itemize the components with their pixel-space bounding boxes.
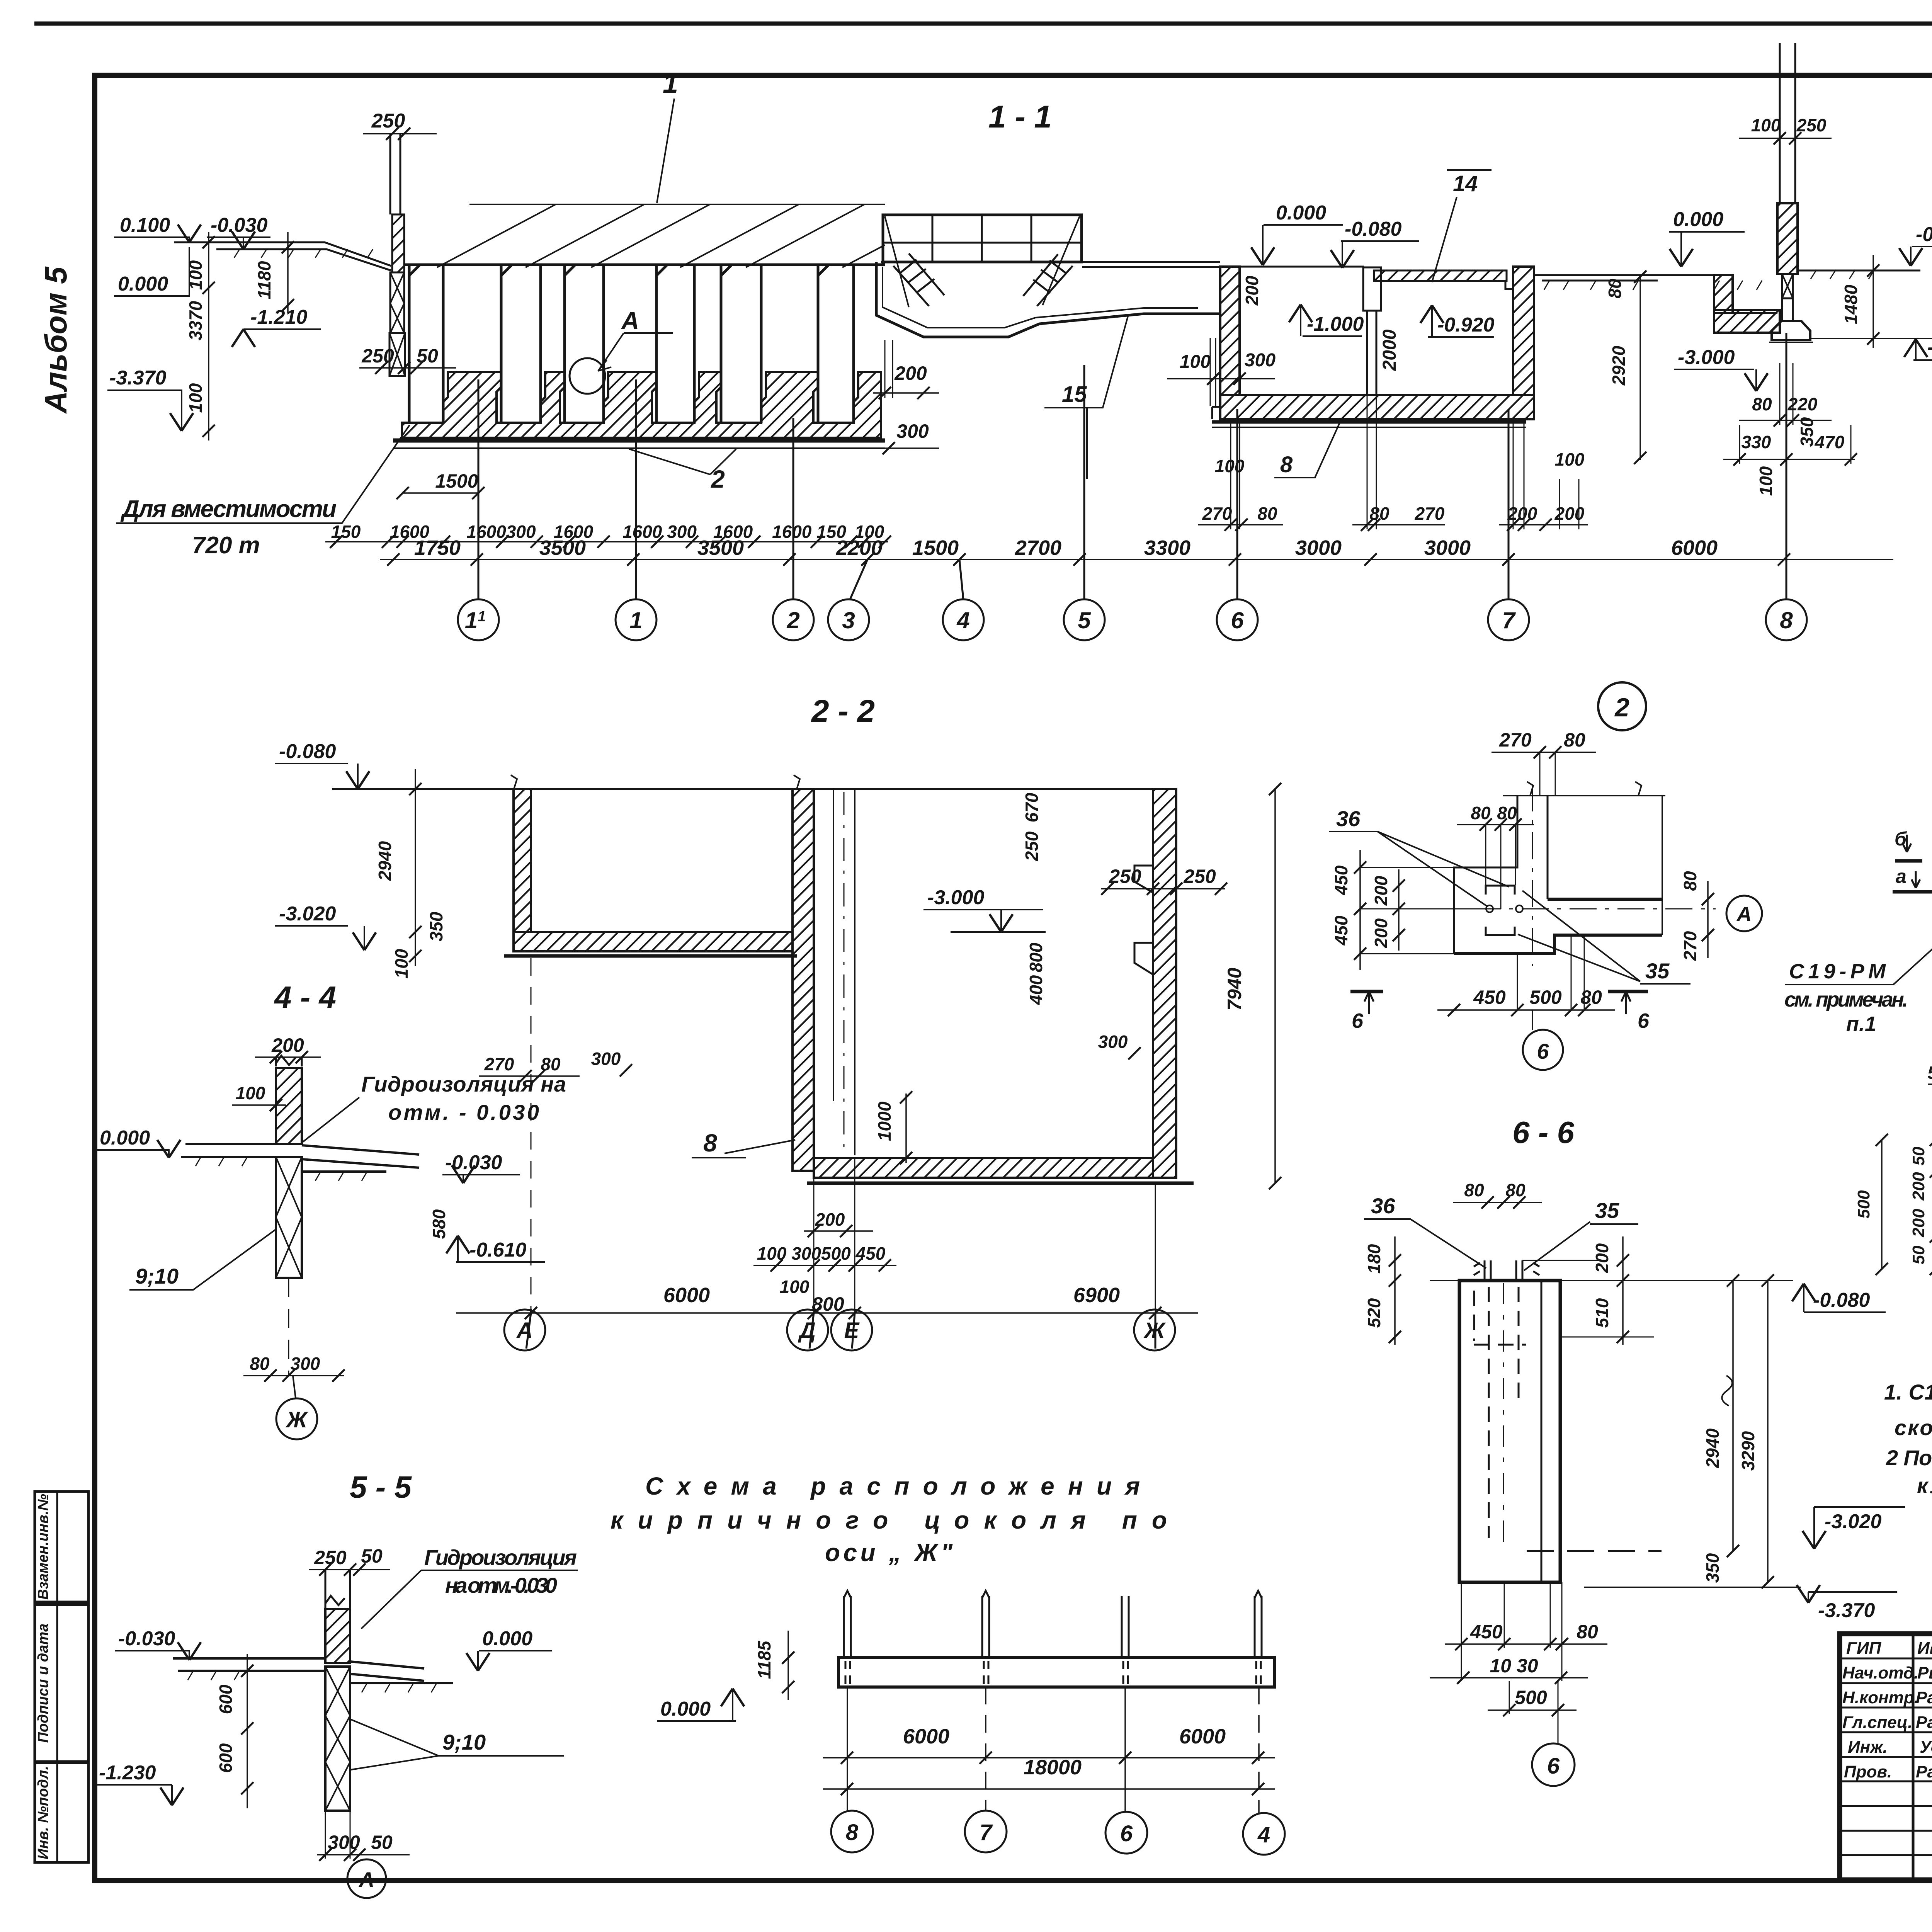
section 4-4 [97, 980, 566, 1439]
svg-text:580: 580 [429, 1209, 449, 1239]
svg-text:80: 80 [1605, 279, 1625, 299]
svg-text:6: 6 [1352, 1009, 1364, 1032]
axis circles row [458, 333, 1807, 640]
svg-text:6000: 6000 [903, 1725, 949, 1748]
left vertical dim chain [208, 232, 209, 440]
svg-text:-0.610: -0.610 [469, 1239, 527, 1261]
anchor pocket dashed [1489, 1287, 1519, 1538]
svg-text:6000: 6000 [1671, 536, 1718, 560]
circle 6 [1532, 1743, 1575, 1786]
svg-text:2: 2 [1614, 693, 1629, 722]
svg-text:-3.000: -3.000 [927, 886, 985, 909]
svg-text:-0.080: -0.080 [1345, 218, 1402, 240]
top channel pair [1474, 1260, 1539, 1281]
bunker tank walls [409, 265, 854, 423]
circle 2 label [1598, 682, 1646, 730]
svg-text:0.000: 0.000 [660, 1698, 711, 1720]
center lines [1378, 784, 1716, 966]
svg-text:200: 200 [1371, 918, 1391, 948]
svg-text:2200: 2200 [836, 536, 883, 560]
svg-text:2940: 2940 [1702, 1428, 1723, 1468]
main wall rect [1459, 1281, 1560, 1582]
bunker top slab line [404, 264, 885, 266]
svg-text:80: 80 [1564, 729, 1585, 751]
left attribute box Взамен.инв.№ [35, 1492, 88, 1602]
svg-text:200: 200 [1242, 276, 1262, 306]
svg-text:1 - 1: 1 - 1 [988, 99, 1052, 134]
svg-text:1: 1 [663, 68, 678, 99]
svg-text:80: 80 [1497, 803, 1517, 823]
svg-text:600: 600 [216, 1743, 236, 1773]
svg-text:8: 8 [703, 1129, 717, 1157]
svg-text:35: 35 [1595, 1198, 1619, 1223]
svg-text:220: 220 [1787, 394, 1818, 414]
svg-text:200: 200 [1371, 876, 1391, 906]
svg-text:270: 270 [1680, 931, 1700, 961]
svg-text:б: б [1895, 828, 1907, 850]
svg-text:1600300: 1600300 [466, 522, 536, 542]
central wall hatched [793, 789, 814, 1171]
svg-text:-1.560: -1.560 [1927, 336, 1932, 359]
svg-text:100: 100 [185, 260, 206, 290]
foundation strip hatched [402, 372, 881, 438]
svg-text:4 - 4: 4 - 4 [274, 980, 336, 1014]
dim 1180 / level -1.210 [287, 232, 289, 313]
left attribute box Инв.№ подл. [35, 1763, 88, 1862]
svg-text:670: 670 [1022, 793, 1042, 822]
svg-text:2920: 2920 [1609, 345, 1629, 386]
hopper chutes slanted [893, 253, 944, 306]
node A circle on tank [570, 358, 605, 394]
dims 50 350 350 50 [1927, 1063, 1932, 1083]
svg-text:6 - 6: 6 - 6 [1512, 1115, 1575, 1150]
svg-text:100: 100 [1180, 352, 1211, 372]
signature table rows [1840, 1658, 1932, 1855]
svg-text:270: 270 [1415, 503, 1445, 524]
svg-text:-0.080: -0.080 [279, 740, 336, 763]
svg-text:0.000: 0.000 [482, 1628, 532, 1650]
svg-text:3500: 3500 [539, 536, 586, 560]
svg-text:Для вместимости: Для вместимости [120, 496, 337, 522]
foundation base double line [393, 439, 885, 443]
section 1-1 [107, 43, 1932, 640]
svg-text:270: 270 [484, 1054, 514, 1074]
svg-text:1500: 1500 [912, 536, 959, 560]
trench before axis 8 [1714, 275, 1733, 313]
svg-text:6900: 6900 [1073, 1284, 1120, 1307]
svg-text:720 т: 720 т [192, 532, 260, 559]
svg-text:-3.000: -3.000 [1678, 346, 1735, 369]
vertical dims 600 600 [247, 1654, 248, 1808]
right wall hatched [1153, 789, 1176, 1178]
svg-text:15: 15 [1062, 382, 1087, 407]
svg-text:9;10: 9;10 [442, 1730, 486, 1754]
wall outline [1454, 796, 1517, 954]
svg-text:200: 200 [1592, 1243, 1612, 1273]
axis to circle Ж [288, 1278, 289, 1376]
svg-text:ГИП: ГИП [1846, 1639, 1882, 1658]
svg-text:300: 300 [591, 1049, 621, 1069]
svg-text:300: 300 [1098, 1032, 1128, 1052]
svg-text:Нач.отд.: Нач.отд. [1842, 1663, 1918, 1682]
svg-text:скобе- накладке по ГОСТ 140: скобе- накладке по ГОСТ 14098-85. [1895, 1415, 1932, 1440]
svg-text:9;10: 9;10 [135, 1264, 179, 1288]
wall column axis 11 [390, 134, 400, 214]
svg-text:оси „ Ж": оси „ Ж" [825, 1539, 953, 1566]
notes [1884, 1380, 1932, 1498]
svg-text:250: 250 [1183, 866, 1216, 887]
plinth beam [838, 1658, 1275, 1687]
svg-text:Альбом 5: Альбом 5 [39, 266, 73, 414]
wall pier [325, 1570, 350, 1609]
axis 8 column [1780, 43, 1795, 203]
svg-text:100: 100 [185, 383, 206, 413]
svg-text:520: 520 [1364, 1298, 1384, 1328]
svg-text:2: 2 [711, 465, 725, 493]
svg-text:100: 100 [391, 949, 412, 978]
svg-text:см. примечан.: см. примечан. [1784, 988, 1908, 1011]
svg-text:330: 330 [1742, 432, 1771, 452]
svg-text:Ж: Ж [285, 1407, 308, 1432]
svg-text:500: 500 [1854, 1190, 1873, 1219]
svg-text:500: 500 [1515, 1687, 1547, 1708]
svg-text:А: А [621, 307, 639, 335]
svg-text:1000: 1000 [874, 1101, 895, 1141]
svg-text:350: 350 [1797, 417, 1817, 447]
svg-text:300: 300 [896, 420, 929, 442]
schema group [611, 1472, 1285, 1855]
svg-text:a: a [1896, 866, 1906, 887]
svg-text:200: 200 [1909, 1172, 1928, 1201]
ground line left [174, 242, 391, 270]
leader lines to label 1 [437, 204, 885, 267]
svg-text:470: 470 [1815, 432, 1845, 452]
svg-text:270: 270 [1202, 503, 1232, 524]
axis circles A Д Е Ж [504, 1309, 1175, 1350]
svg-text:450: 450 [1470, 1621, 1503, 1643]
svg-text:35: 35 [1645, 959, 1670, 983]
svg-text:-3.020: -3.020 [1825, 1510, 1882, 1533]
section marks б [1350, 990, 1383, 993]
svg-text:Н.контр.: Н.контр. [1842, 1688, 1919, 1707]
deep pit bottom slab [814, 1158, 1153, 1178]
top edge line [332, 788, 1176, 790]
svg-text:Е: Е [844, 1318, 860, 1343]
svg-text:4: 4 [1257, 1822, 1270, 1847]
svg-text:5: 5 [1078, 607, 1091, 633]
svg-text:500: 500 [1529, 986, 1562, 1008]
svg-text:Инж.: Инж. [1848, 1738, 1888, 1757]
svg-text:отм. - 0.030: отм. - 0.030 [388, 1100, 539, 1124]
svg-text:0.100: 0.100 [120, 214, 170, 236]
svg-text:8: 8 [1280, 452, 1293, 477]
svg-text:0.000: 0.000 [1276, 202, 1326, 224]
slabs / ground [173, 1658, 325, 1671]
svg-text:-0.030: -0.030 [118, 1628, 175, 1650]
stamp outer box [1840, 1634, 1932, 1880]
svg-text:-0.920: -0.920 [1437, 314, 1495, 336]
svg-text:1180: 1180 [254, 261, 274, 299]
svg-text:8: 8 [1780, 607, 1793, 633]
svg-text:1185: 1185 [754, 1640, 774, 1679]
pit walls [1220, 266, 1364, 268]
circle б bottom [1532, 1010, 1533, 1030]
svg-text:Рашевский: Рашевский [1916, 1762, 1932, 1781]
svg-text:7: 7 [1502, 607, 1516, 633]
circle A right [1726, 896, 1762, 931]
svg-text:Гидроизоляция на: Гидроизоляция на [361, 1072, 566, 1096]
svg-text:6: 6 [1638, 1009, 1650, 1032]
svg-text:0.000: 0.000 [118, 273, 168, 295]
signature table columns [1913, 1634, 1932, 1880]
axis drop lines [847, 1687, 1125, 1812]
hopper platform grid [883, 215, 1082, 262]
svg-text:510: 510 [1592, 1298, 1612, 1328]
svg-text:Рыбкина: Рыбкина [1917, 1663, 1932, 1682]
section 6-6 [1364, 1115, 1905, 1786]
svg-text:36: 36 [1371, 1194, 1395, 1218]
svg-text:7940: 7940 [1224, 968, 1245, 1010]
svg-text:3000: 3000 [1424, 536, 1471, 560]
svg-text:80: 80 [1464, 1180, 1484, 1200]
svg-text:2 После сварки выпусков ст: 2 После сварки выпусков стык омонолитить… [1886, 1446, 1932, 1470]
axis circles 8 7 6 4 [831, 1811, 1285, 1855]
svg-text:800: 800 [1026, 942, 1046, 972]
tub pit [876, 262, 1220, 337]
svg-text:600: 600 [216, 1684, 236, 1714]
svg-text:14: 14 [1453, 171, 1478, 196]
hopper floor line [881, 262, 1220, 267]
svg-text:Гл.спец.: Гл.спец. [1842, 1713, 1912, 1732]
svg-text:100: 100 [1555, 449, 1585, 469]
pit bottom dims [1202, 449, 1585, 524]
svg-text:300: 300 [1245, 350, 1276, 371]
svg-text:6: 6 [1537, 1039, 1549, 1063]
svg-text:150: 150 [331, 522, 361, 542]
svg-text:2 - 2: 2 - 2 [811, 694, 875, 729]
svg-text:Гидроизоляция: Гидроизоляция [424, 1545, 577, 1570]
axis circle A [347, 1859, 386, 1898]
svg-text:200: 200 [1554, 503, 1585, 524]
svg-text:18000: 18000 [1024, 1756, 1082, 1779]
svg-text:250: 250 [1022, 831, 1042, 861]
svg-text:100 300500 450: 100 300500 450 [757, 1243, 886, 1264]
small dims row A [331, 522, 884, 542]
svg-text:1: 1 [629, 607, 642, 633]
svg-text:-0.030: -0.030 [211, 214, 268, 236]
svg-text:2940: 2940 [375, 841, 395, 881]
long dashed level line [1527, 1550, 1662, 1552]
svg-text:6: 6 [1547, 1753, 1560, 1779]
svg-text:4: 4 [956, 607, 969, 633]
svg-text:Рашевский: Рашевский [1916, 1688, 1932, 1707]
svg-text:8: 8 [846, 1820, 859, 1845]
svg-text:350: 350 [1702, 1553, 1723, 1583]
svg-text:80: 80 [1752, 394, 1772, 414]
slabs [181, 1144, 276, 1157]
svg-text:250: 250 [361, 345, 394, 367]
title block (stamp) [1840, 1491, 1932, 1932]
svg-text:-0.080: -0.080 [1813, 1289, 1870, 1311]
consoles on right wall [1134, 866, 1153, 893]
svg-text:Пров.: Пров. [1844, 1762, 1892, 1781]
node A detail group [1784, 663, 1932, 1338]
svg-text:100: 100 [236, 1083, 265, 1103]
svg-text:на отм.-0.030: на отм.-0.030 [445, 1573, 557, 1597]
ground line right of pit [1534, 275, 1714, 281]
sheet top edge line [34, 22, 1932, 26]
svg-text:36: 36 [1336, 806, 1361, 831]
section 2-2 [275, 694, 1281, 1350]
svg-text:100: 100 [1756, 466, 1776, 496]
left wall hatched [514, 789, 531, 932]
svg-text:200: 200 [1507, 503, 1537, 524]
svg-text:0.000: 0.000 [100, 1127, 150, 1149]
svg-text:100: 100 [780, 1277, 810, 1297]
svg-text:80: 80 [1257, 503, 1277, 524]
left attribute box Подписи и дата [35, 1605, 88, 1762]
svg-text:3500: 3500 [697, 536, 744, 560]
svg-text:1500: 1500 [435, 470, 478, 492]
svg-text:А: А [516, 1318, 533, 1343]
svg-text:10 30: 10 30 [1490, 1655, 1538, 1677]
svg-text:Инв. №подл.: Инв. №подл. [35, 1766, 51, 1859]
svg-text:-3.020: -3.020 [279, 903, 336, 925]
svg-text:3: 3 [842, 607, 855, 633]
svg-text:-1.000: -1.000 [1307, 313, 1364, 335]
channel anchors [1486, 886, 1515, 935]
svg-text:6: 6 [1231, 607, 1244, 633]
posts [844, 1591, 1262, 1658]
element lines in pit [833, 789, 855, 1155]
svg-text:100: 100 [1751, 115, 1781, 135]
svg-text:80: 80 [250, 1354, 270, 1374]
svg-text:50: 50 [1927, 1063, 1932, 1083]
section 5-5 [96, 1470, 578, 1898]
svg-text:1750: 1750 [414, 536, 461, 560]
left plan side dims [1854, 1141, 1932, 1266]
svg-text:1600 150: 1600 150 [772, 522, 846, 542]
svg-text:Взамен.инв.№: Взамен.инв.№ [35, 1494, 51, 1600]
top edge with breaks [1503, 782, 1665, 796]
svg-text:Подписи и дата: Подписи и дата [35, 1624, 51, 1743]
svg-text:450: 450 [1331, 915, 1351, 946]
svg-text:7: 7 [980, 1820, 993, 1845]
svg-text:3290: 3290 [1738, 1431, 1758, 1471]
svg-text:180: 180 [1364, 1244, 1384, 1274]
svg-text:200: 200 [1909, 1209, 1928, 1238]
svg-text:350: 350 [426, 912, 446, 941]
svg-text:1. С19- РМ- сварка дуговая: 1. С19- РМ- сварка дуговая ручная многос… [1884, 1380, 1932, 1404]
svg-text:-0.080: -0.080 [1916, 223, 1932, 246]
svg-text:А: А [358, 1867, 374, 1892]
ground right of column [1798, 270, 1920, 272]
svg-text:Рашевский: Рашевский [1916, 1713, 1932, 1732]
svg-text:250: 250 [1109, 866, 1141, 887]
svg-text:-3.370: -3.370 [109, 367, 167, 389]
svg-text:1480: 1480 [1841, 284, 1861, 324]
main dim row B [414, 536, 1718, 560]
svg-text:3300: 3300 [1144, 536, 1190, 560]
svg-text:270: 270 [1499, 729, 1532, 751]
svg-text:Иванова: Иванова [1917, 1639, 1932, 1658]
svg-text:3370: 3370 [185, 301, 206, 340]
svg-text:50: 50 [1909, 1146, 1928, 1165]
svg-text:2: 2 [786, 607, 799, 633]
upper pit floor slab [514, 932, 793, 951]
svg-text:2700: 2700 [1015, 536, 1061, 560]
svg-text:200: 200 [271, 1034, 304, 1056]
svg-text:80: 80 [1680, 871, 1700, 891]
svg-text:50: 50 [371, 1832, 393, 1853]
svg-text:-1.230: -1.230 [99, 1762, 156, 1784]
node 2 detail [1329, 682, 1762, 1070]
svg-text:А: А [1736, 903, 1752, 926]
svg-text:50: 50 [1909, 1245, 1928, 1264]
svg-text:-3.370: -3.370 [1818, 1599, 1875, 1622]
svg-text:2000: 2000 [1379, 329, 1400, 371]
svg-text:-1.210: -1.210 [250, 306, 308, 328]
svg-text:Д: Д [798, 1318, 816, 1343]
svg-text:200: 200 [894, 362, 927, 384]
svg-text:400: 400 [1026, 975, 1046, 1005]
svg-text:6: 6 [1120, 1821, 1133, 1846]
svg-text:3000: 3000 [1295, 536, 1342, 560]
wall pier [276, 1056, 302, 1066]
svg-text:250: 250 [371, 110, 405, 132]
signature labels [1842, 1639, 1932, 1781]
svg-text:6000: 6000 [663, 1284, 710, 1307]
svg-text:6000: 6000 [1179, 1725, 1226, 1748]
svg-text:450: 450 [1473, 986, 1506, 1008]
svg-text:80: 80 [1471, 803, 1491, 823]
svg-text:Удалова: Удалова [1920, 1738, 1932, 1757]
svg-text:80: 80 [1577, 1621, 1598, 1643]
svg-text:0.000: 0.000 [1673, 208, 1723, 231]
svg-text:Ж: Ж [1143, 1318, 1166, 1343]
svg-text:450: 450 [1331, 865, 1351, 895]
svg-text:5 - 5: 5 - 5 [350, 1470, 412, 1504]
svg-text:п.1: п.1 [1846, 1012, 1876, 1036]
